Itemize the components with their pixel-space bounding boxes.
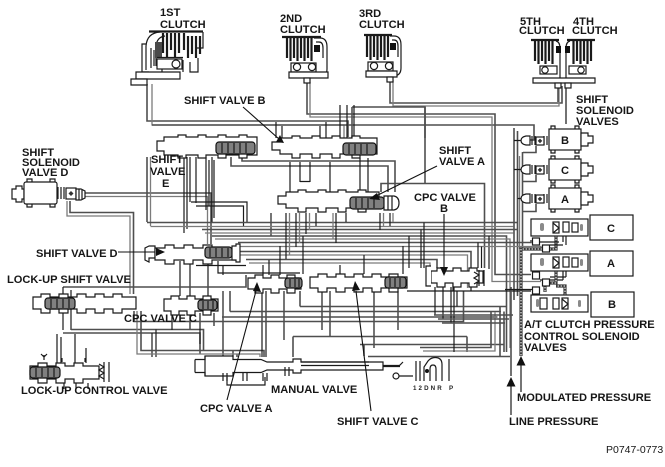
svg-text:A/T CLUTCH PRESSURE: A/T CLUTCH PRESSURE xyxy=(524,319,655,331)
wire bus band4 y243 xyxy=(238,240,531,243)
svg-text:VALVE A: VALVE A xyxy=(439,156,485,168)
arrow LINE PRESSURE xyxy=(510,386,512,415)
svg-text:SHIFT VALVE B: SHIFT VALVE B xyxy=(184,95,266,107)
wire risers bands to lower valves xyxy=(263,223,482,276)
wire cpcC bottom drops xyxy=(172,313,214,344)
wire solenoidD out right xyxy=(84,193,211,244)
svg-text:B: B xyxy=(608,299,616,311)
wire bus band2 y230 xyxy=(202,229,517,231)
svg-text:CLUTCH: CLUTCH xyxy=(519,25,565,37)
wire solenoid valves drain to modulated line xyxy=(523,146,536,212)
valve SHIFT VALVE C xyxy=(310,274,407,292)
svg-text:VALVE: VALVE xyxy=(150,166,185,178)
svg-text:CLUTCH: CLUTCH xyxy=(280,24,326,36)
wire right lower verticals xyxy=(500,307,504,357)
wire top bus to solenoid B xyxy=(152,125,534,140)
wire lockup shift bottom to manual xyxy=(141,311,264,357)
clutch 2ND xyxy=(282,37,328,83)
svg-text:CPC VALVE A: CPC VALVE A xyxy=(200,403,273,415)
svg-text:B: B xyxy=(440,203,448,215)
wire bus y202 under valveE xyxy=(191,202,271,236)
wire valveE bottom ports xyxy=(184,157,214,233)
wire manual right to risers xyxy=(420,312,491,348)
valve CPC VALVE C xyxy=(164,296,218,315)
wire valveA bottom ports xyxy=(286,213,390,259)
svg-text:LOCK-UP SHIFT VALVE: LOCK-UP SHIFT VALVE xyxy=(7,274,131,286)
wire bus y330 left xyxy=(71,330,204,351)
leader CPC VALVE B arrow xyxy=(443,214,445,268)
wire clutch2 drop xyxy=(307,82,531,275)
svg-text:A: A xyxy=(561,194,569,206)
wire line pressure riser xyxy=(510,287,512,376)
wire valveD bottom to CPC C xyxy=(180,261,300,330)
wire busA drop x352 xyxy=(351,107,353,138)
components group xyxy=(12,32,634,390)
valve SHIFT VALVE A xyxy=(278,190,399,212)
arrow MODULATED PRESSURE xyxy=(520,364,522,392)
svg-text:VALVE D: VALVE D xyxy=(22,167,68,179)
svg-text:B: B xyxy=(561,135,569,147)
solenoid SHIFT SOLENOID VALVE D xyxy=(12,179,85,207)
connector squares right xyxy=(533,238,540,245)
wire clutch1 to top bus xyxy=(147,84,348,137)
leader CPC VALVE A arrow xyxy=(227,291,256,400)
svg-text:1ST: 1ST xyxy=(160,7,181,19)
wire bus band7 y266 xyxy=(196,266,246,357)
wire bus band5 y252 xyxy=(238,252,471,292)
wire modulated hatched main xyxy=(521,236,556,356)
svg-text:SHIFT VALVE C: SHIFT VALVE C xyxy=(337,416,419,428)
svg-text:A: A xyxy=(607,258,615,270)
manual valve left drain pocket xyxy=(227,377,265,385)
wire 4th5th to busB xyxy=(565,87,567,124)
solenoid SHIFT SOLENOID VALVE C xyxy=(521,156,593,183)
wire bus band3 y236 xyxy=(212,236,507,352)
leader SHIFT VALVE C arrow xyxy=(356,291,371,411)
valve SHIFT VALVE B xyxy=(272,136,377,158)
wire modulated hatched branch A xyxy=(545,271,556,292)
leader SHIFT VALVE A arrow xyxy=(376,166,437,196)
svg-text:CLUTCH: CLUTCH xyxy=(572,25,618,37)
valve SHIFT VALVE E xyxy=(157,135,257,158)
clutch 3RD xyxy=(364,35,401,82)
wires group xyxy=(57,78,566,376)
wire bus band1 y222 xyxy=(147,222,517,224)
wire valveB bottom drops xyxy=(290,158,368,196)
wire right lower horizontals xyxy=(434,315,513,323)
valve MANUAL VALVE xyxy=(195,356,449,385)
wire lockup control risers xyxy=(57,334,86,363)
solenoid A/T CPC SOLENOID B xyxy=(531,292,634,317)
wire bus y306 xyxy=(300,291,507,307)
wire CPC C solenoid to connectors xyxy=(540,267,566,280)
wire shiftC bottom drops xyxy=(322,291,398,348)
svg-text:LINE PRESSURE: LINE PRESSURE xyxy=(509,416,598,428)
svg-text:LOCK-UP CONTROL VALVE: LOCK-UP CONTROL VALVE xyxy=(21,385,167,397)
leader SHIFT VALVE B arrow xyxy=(243,107,279,139)
wire clutch3 to 4th5th bus xyxy=(390,78,562,103)
valve LOCK-UP CONTROL VALVE xyxy=(30,354,109,389)
wire bus band6 y260 xyxy=(246,260,437,269)
leader SHIFT VALVE D arrow xyxy=(118,251,155,253)
wire riser x236 to manual xyxy=(233,351,237,358)
svg-text:CPC VALVE C: CPC VALVE C xyxy=(124,313,197,325)
svg-text:E: E xyxy=(162,178,169,190)
solenoid SHIFT SOLENOID VALVE A xyxy=(521,185,593,212)
svg-text:SHIFT: SHIFT xyxy=(151,154,183,166)
wire 5th clutch drop xyxy=(557,87,559,102)
svg-text:MANUAL VALVE: MANUAL VALVE xyxy=(271,384,357,396)
wire cpcB bottom drops xyxy=(435,287,457,352)
svg-text:VALVES: VALVES xyxy=(524,342,567,354)
svg-text:SHIFT VALVE D: SHIFT VALVE D xyxy=(36,248,118,260)
clutch 1ST xyxy=(131,32,203,86)
svg-text:C: C xyxy=(607,223,615,235)
wire hatched branch B xyxy=(556,286,565,295)
wire riser x156 to manual xyxy=(152,330,156,358)
svg-text:MODULATED PRESSURE: MODULATED PRESSURE xyxy=(517,392,651,404)
wire long y356 line xyxy=(368,356,510,358)
wire valveE left drop xyxy=(146,157,148,222)
wire bus y322 xyxy=(134,291,464,322)
manual valve detent lever xyxy=(416,358,442,382)
svg-text:P0747-0773: P0747-0773 xyxy=(606,444,663,456)
wire lockup shift top riser xyxy=(63,287,71,330)
valve CPC VALVE B xyxy=(426,266,484,287)
wire solenoidD down to lockup shift xyxy=(70,201,134,294)
svg-text:VALVES: VALVES xyxy=(576,116,619,128)
valve SHIFT VALVE D xyxy=(145,244,240,264)
wire y291 black to solenoid B xyxy=(407,271,531,291)
wire solenoid valve feeds xyxy=(514,128,518,300)
wire valveE to busA right xyxy=(231,157,388,192)
wire bus y317 xyxy=(222,316,498,318)
svg-text:12DNR P: 12DNR P xyxy=(413,385,455,392)
svg-text:CLUTCH: CLUTCH xyxy=(160,19,206,31)
wire to connector squares xyxy=(505,232,566,290)
wire bus y345 xyxy=(360,345,504,357)
wire left riser to bus xyxy=(63,275,246,287)
wire bus y107 xyxy=(352,107,425,138)
solenoid A/T CPC SOLENOID A xyxy=(531,251,633,276)
wire center verticals to manual valve xyxy=(262,291,284,357)
svg-text:CLUTCH: CLUTCH xyxy=(359,19,405,31)
clutch 5TH and 4TH pair xyxy=(531,40,595,88)
solenoid SHIFT SOLENOID VALVE B xyxy=(521,126,593,153)
wire x425 down to valveA xyxy=(381,107,485,268)
wire bus y337 xyxy=(293,337,467,358)
svg-text:C: C xyxy=(561,165,569,177)
solenoid A/T CPC SOLENOID C xyxy=(531,215,633,240)
wire bus y311 xyxy=(230,291,501,312)
valve CPC VALVE A xyxy=(248,275,302,293)
wire valveB top ports xyxy=(276,105,354,138)
valve LOCK-UP SHIFT VALVE xyxy=(33,294,136,313)
